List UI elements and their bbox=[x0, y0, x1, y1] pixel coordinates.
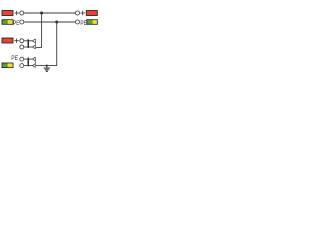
wire PE (row2) bbox=[24, 21, 76, 23]
wire PE out + vertical V2 (row4 to row2) bbox=[36, 22, 57, 66]
clamp point upper (row4) bbox=[20, 57, 24, 61]
disconnect fork upper (row3) bbox=[33, 39, 36, 43]
disconnect fork lower (row3) bbox=[33, 45, 36, 49]
bridge bar (row3) bbox=[28, 39, 30, 48]
wire L+ (row1) bbox=[24, 12, 76, 14]
ground (earth symbol) bbox=[44, 68, 50, 71]
wire upper level (row4) bbox=[24, 58, 33, 60]
svg-text:PE: PE bbox=[11, 55, 18, 62]
contact bar (row4) bbox=[35, 57, 37, 67]
disconnect fork lower (row4) bbox=[33, 64, 36, 68]
contact bar (row3) bbox=[35, 39, 37, 49]
wire ground stub bbox=[46, 66, 48, 68]
background bbox=[0, 0, 100, 100]
terminal marker X1 red (row1 left) bbox=[2, 11, 13, 16]
wire lower level (row4) bbox=[24, 65, 33, 67]
node junction (row1 / vertical tap) bbox=[40, 12, 43, 15]
bridge bar (row4) bbox=[28, 58, 30, 67]
terminal marker red (row3) bbox=[2, 38, 13, 43]
clamp point (row1 left) bbox=[20, 11, 24, 15]
terminal marker green-yellow PE (row2 left) bbox=[2, 20, 13, 25]
terminal marker red (row1 right) bbox=[86, 11, 97, 16]
wire lower level (row3) bbox=[24, 46, 33, 48]
svg-text:PE: PE bbox=[80, 20, 87, 27]
clamp point (row2 left) bbox=[20, 20, 24, 24]
wire vertical V1 (+ tap from row1 down to row3 terminal) bbox=[36, 13, 42, 47]
clamp point lower (row3) bbox=[20, 45, 24, 49]
wire upper level (row3) bbox=[24, 40, 33, 42]
node junction (ground tap) bbox=[46, 65, 48, 67]
node junction (row2 / vertical tap) bbox=[55, 21, 58, 24]
terminal marker green-yellow PE (row2 right) bbox=[87, 20, 98, 25]
plus label (row1 left) bbox=[15, 11, 20, 15]
clamp point lower (row4) bbox=[20, 64, 24, 68]
terminal marker green-yellow (row4) bbox=[2, 63, 13, 68]
plus label (row3) bbox=[14, 39, 18, 43]
svg-text:PE: PE bbox=[13, 20, 20, 27]
clamp point (row2 right) bbox=[76, 20, 80, 24]
disconnect fork upper (row4) bbox=[33, 57, 36, 61]
clamp point upper (row3) bbox=[20, 39, 24, 43]
clamp point (row1 right) bbox=[76, 11, 80, 15]
plus label (row1 right) bbox=[81, 11, 86, 15]
